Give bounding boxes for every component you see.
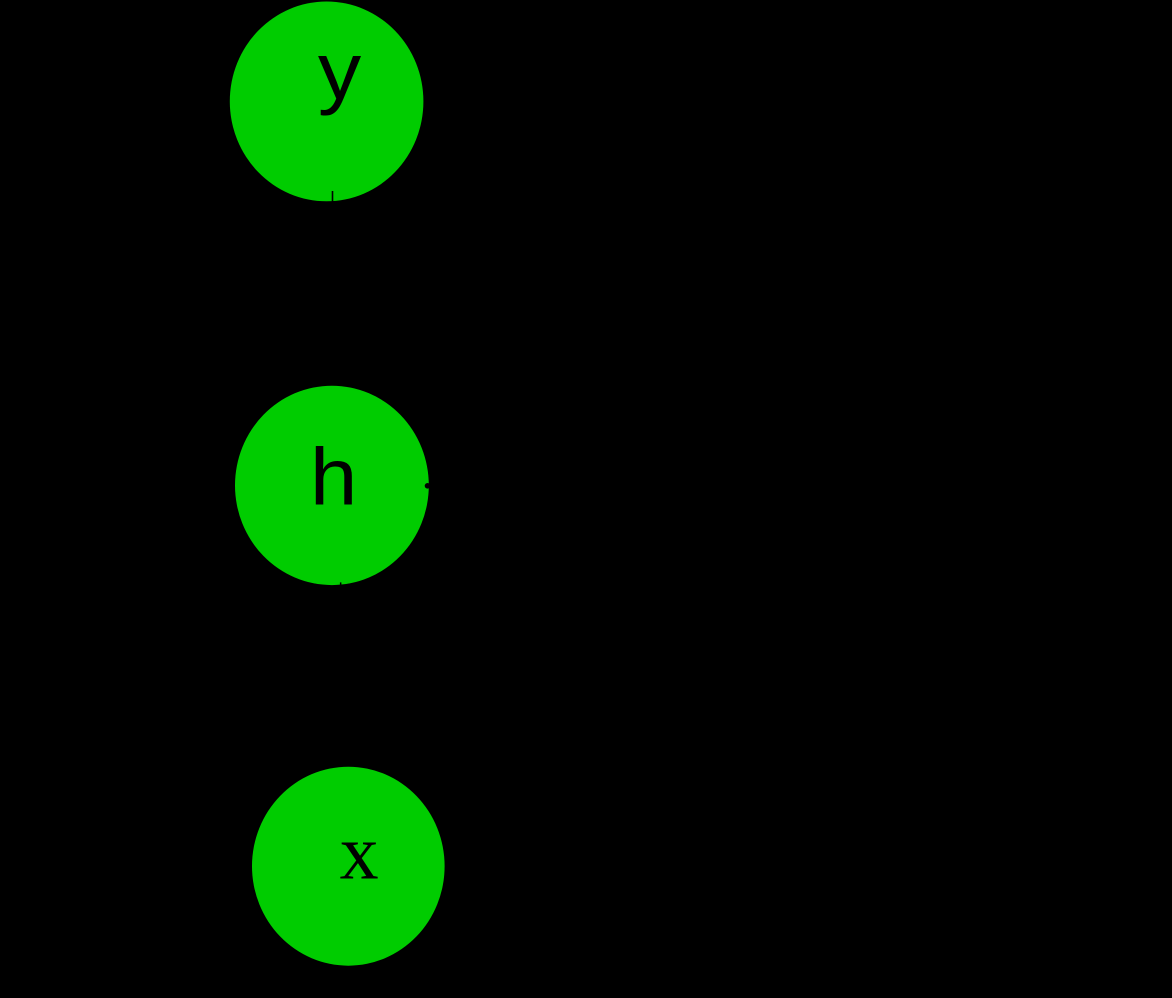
svg-text:x: x	[340, 808, 379, 895]
svg-text:h: h	[310, 431, 358, 521]
svg-text:y: y	[318, 25, 361, 116]
